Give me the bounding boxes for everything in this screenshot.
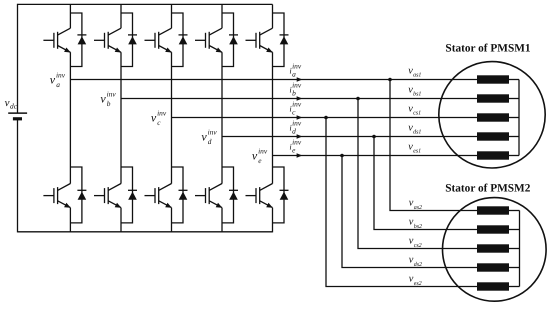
winding cs1	[477, 113, 509, 121]
diode D3 triangle	[179, 36, 188, 44]
lower freewheel diode bracket leg 1	[70, 167, 82, 223]
svg-text:es2: es2	[414, 281, 422, 287]
upper freewheel diode bracket leg 1	[70, 13, 82, 67]
svg-text:cs2: cs2	[414, 243, 422, 249]
transistor S3p emitter	[159, 201, 172, 208]
diode D1 cathode bar	[77, 34, 86, 36]
svg-text:v: v	[252, 148, 258, 162]
lower freewheel diode bracket leg 3	[172, 167, 184, 223]
svg-text:v: v	[151, 110, 157, 124]
svg-text:v: v	[5, 97, 10, 109]
svg-text:inv: inv	[107, 90, 117, 99]
leg 4 wire to bottom rail	[221, 208, 223, 233]
transistor S5 collector	[260, 28, 273, 35]
svg-text:ds1: ds1	[413, 129, 421, 136]
winding es1 star stub	[509, 155, 519, 157]
diode D1 triangle	[78, 36, 87, 44]
diode D3 cathode bar	[179, 34, 188, 36]
svg-text:v: v	[100, 91, 106, 105]
transistor S3 gate bar	[154, 33, 156, 48]
leg 2 wire to bottom rail	[120, 208, 122, 233]
winding bs1 star stub	[509, 98, 519, 100]
phase a line	[70, 79, 477, 81]
winding as1	[477, 75, 509, 83]
node phase e tap junction	[340, 154, 344, 158]
wire left DC bus vertical lower	[17, 119, 19, 233]
svg-text:inv: inv	[208, 128, 218, 137]
transistor S5p emitter arrow	[266, 203, 273, 208]
svg-text:e: e	[258, 156, 262, 165]
winding es1	[477, 151, 509, 159]
svg-text:as1: as1	[413, 73, 421, 79]
leg 5 wire mid vertical	[272, 52, 274, 183]
leg 3 wire mid vertical	[171, 52, 173, 183]
winding bs1	[477, 94, 509, 102]
transistor S2p emitter	[108, 201, 121, 208]
transistor S2p body bar	[107, 187, 109, 204]
current arrow i_b	[297, 96, 303, 100]
diode D4p triangle	[229, 192, 238, 200]
diode D2p triangle	[128, 192, 137, 200]
lower freewheel diode bracket leg 5	[273, 167, 285, 223]
diode D2 triangle	[128, 36, 137, 44]
stator circle PMSM1	[439, 62, 545, 168]
winding ds2 star stub	[509, 267, 520, 269]
current arrow i_e	[297, 153, 303, 157]
wire tap phase a to PMSM2	[390, 80, 477, 211]
transistor S3 collector	[159, 28, 172, 35]
diode D2 cathode bar	[128, 34, 137, 36]
winding es2 star stub	[509, 286, 520, 288]
transistor S5 gate bar	[255, 33, 257, 48]
winding cs2 star stub	[509, 248, 520, 250]
upper freewheel diode bracket leg 5	[273, 13, 285, 67]
svg-text:inv: inv	[258, 147, 268, 156]
transistor S3 emitter	[159, 46, 172, 53]
svg-text:es1: es1	[413, 149, 421, 155]
transistor S2p emitter arrow	[115, 203, 122, 208]
transistor S5p body bar	[259, 187, 261, 204]
winding as2 star stub	[509, 210, 520, 212]
phase b line	[121, 98, 477, 100]
transistor S3p collector	[159, 184, 172, 191]
leg 5 wire rail-to-collector	[272, 4, 274, 28]
diode D4 triangle	[229, 36, 238, 44]
upper freewheel diode bracket leg 3	[172, 13, 184, 67]
svg-text:dc: dc	[10, 102, 18, 111]
svg-text:cs1: cs1	[413, 111, 421, 117]
winding ds2	[477, 263, 509, 271]
current arrow i_d	[297, 134, 303, 138]
leg 1 wire to bottom rail	[69, 208, 71, 233]
transistor S3 emitter arrow	[165, 48, 172, 53]
transistor S2p gate lead	[94, 195, 105, 197]
transistor S2 gate lead	[94, 39, 105, 41]
DC bus top rail	[18, 3, 273, 5]
svg-text:b: b	[107, 99, 111, 108]
transistor S2p collector	[108, 184, 121, 191]
battery Vdc negative plate	[13, 117, 22, 120]
winding cs2	[477, 244, 509, 252]
transistor S4p collector	[209, 184, 222, 191]
transistor S1 emitter	[58, 46, 71, 53]
svg-text:inv: inv	[157, 109, 167, 118]
svg-text:a: a	[56, 80, 60, 89]
winding ds1	[477, 132, 509, 140]
transistor S1 gate bar	[53, 33, 55, 48]
transistor S5p emitter	[260, 201, 273, 208]
upper freewheel diode bracket leg 4	[222, 13, 234, 67]
leg 2 wire mid vertical	[120, 52, 122, 183]
svg-text:bs1: bs1	[413, 91, 421, 98]
leg 3 wire rail-to-collector	[171, 4, 173, 28]
leg 4 wire rail-to-collector	[221, 4, 223, 28]
transistor S4p emitter	[209, 201, 222, 208]
transistor S3p emitter arrow	[165, 203, 172, 208]
transistor S2 emitter	[108, 46, 121, 53]
PMSM1 star point bus	[518, 80, 520, 156]
transistor S2 body bar	[107, 32, 109, 49]
transistor S2p gate bar	[104, 188, 106, 203]
svg-text:b: b	[292, 88, 296, 97]
svg-text:d: d	[292, 126, 296, 135]
node phase a tap junction	[388, 78, 392, 82]
transistor S5 gate lead	[246, 39, 257, 41]
transistor S5 emitter arrow	[266, 48, 273, 53]
diode D5 triangle	[280, 36, 289, 44]
svg-text:v: v	[201, 129, 207, 143]
svg-text:c: c	[157, 118, 161, 127]
transistor S5 body bar	[259, 32, 261, 49]
wire tap phase b to PMSM2	[358, 99, 477, 249]
diode D2p cathode bar	[128, 189, 137, 191]
transistor S1p body bar	[57, 187, 59, 204]
diode D3p cathode bar	[179, 189, 188, 191]
transistor S4 emitter arrow	[216, 48, 223, 53]
winding as2	[477, 206, 509, 214]
transistor S2 emitter arrow	[115, 48, 122, 53]
phase c line	[172, 117, 478, 119]
transistor S1p collector	[58, 184, 71, 191]
svg-text:as2: as2	[414, 205, 422, 211]
transistor S4p body bar	[208, 187, 210, 204]
transistor S3 gate lead	[145, 39, 156, 41]
svg-text:Stator of PMSM2: Stator of PMSM2	[445, 182, 530, 194]
node phase b tap junction	[356, 97, 360, 101]
transistor S1 emitter arrow	[64, 48, 71, 53]
diode D5 cathode bar	[280, 34, 289, 36]
leg 3 wire to bottom rail	[171, 208, 173, 233]
transistor S3p gate bar	[154, 188, 156, 203]
diode D1p cathode bar	[77, 189, 86, 191]
DC bus bottom rail	[18, 231, 273, 233]
transistor S4p emitter arrow	[216, 203, 223, 208]
transistor S2 gate bar	[104, 33, 106, 48]
winding bs2	[477, 225, 509, 233]
transistor S4p gate bar	[205, 188, 207, 203]
current arrow i_a	[297, 77, 303, 82]
transistor S4 body bar	[208, 32, 210, 49]
leg 2 wire rail-to-collector	[120, 4, 122, 28]
phase d line	[222, 136, 477, 138]
diode D5p cathode bar	[280, 189, 289, 191]
diode D4 cathode bar	[229, 34, 238, 36]
transistor S4 emitter	[209, 46, 222, 53]
transistor S3p body bar	[158, 187, 160, 204]
transistor S1p emitter arrow	[64, 203, 71, 208]
transistor S1 body bar	[57, 32, 59, 49]
current arrow i_c	[297, 115, 303, 119]
transistor S1p gate bar	[53, 188, 55, 203]
svg-text:a: a	[292, 69, 296, 78]
winding ds1 star stub	[509, 136, 519, 138]
transistor S4 gate lead	[195, 39, 206, 41]
wire left DC bus vertical upper	[17, 4, 19, 113]
lower freewheel diode bracket leg 4	[222, 167, 234, 223]
wire tap phase c to PMSM2	[326, 118, 477, 287]
transistor S5p gate bar	[255, 188, 257, 203]
diode D5p triangle	[280, 192, 289, 200]
svg-text:inv: inv	[56, 71, 66, 80]
svg-text:ds2: ds2	[414, 261, 422, 268]
svg-text:v: v	[50, 72, 56, 86]
leg 5 wire to bottom rail	[272, 208, 274, 233]
transistor S1p gate lead	[43, 195, 54, 197]
lower freewheel diode bracket leg 2	[121, 167, 133, 223]
winding as1 star stub	[509, 79, 519, 81]
svg-text:bs2: bs2	[414, 223, 422, 230]
transistor S2 collector	[108, 28, 121, 35]
stator circle PMSM2	[443, 198, 547, 302]
leg 1 wire mid vertical	[69, 52, 71, 183]
leg 4 wire mid vertical	[221, 52, 223, 183]
transistor S1 gate lead	[43, 39, 54, 41]
transistor S1p emitter	[58, 201, 71, 208]
phase e line	[273, 155, 478, 157]
winding es2	[477, 282, 509, 290]
transistor S4p gate lead	[195, 195, 206, 197]
winding cs1 star stub	[509, 117, 519, 119]
svg-text:d: d	[208, 137, 212, 146]
transistor S5p gate lead	[246, 195, 257, 197]
node phase c tap junction	[324, 116, 328, 120]
transistor S4 collector	[209, 28, 222, 35]
transistor S1 collector	[58, 28, 71, 35]
PMSM2 star point bus	[519, 211, 521, 287]
upper freewheel diode bracket leg 2	[121, 13, 133, 67]
leg 1 wire rail-to-collector	[69, 4, 71, 28]
wire tap phase e to PMSM2	[342, 156, 477, 268]
wire tap phase d to PMSM2	[374, 137, 477, 230]
winding bs2 star stub	[509, 229, 520, 231]
transistor S3 body bar	[158, 32, 160, 49]
node phase d tap junction	[372, 135, 376, 139]
svg-text:Stator of PMSM1: Stator of PMSM1	[445, 42, 530, 54]
transistor S4 gate bar	[205, 33, 207, 48]
battery Vdc positive plate	[8, 112, 27, 114]
transistor S5p collector	[260, 184, 273, 191]
diode D3p triangle	[179, 192, 188, 200]
transistor S5 emitter	[260, 46, 273, 53]
diode D1p triangle	[78, 192, 87, 200]
diode D4p cathode bar	[229, 189, 238, 191]
transistor S3p gate lead	[145, 195, 156, 197]
